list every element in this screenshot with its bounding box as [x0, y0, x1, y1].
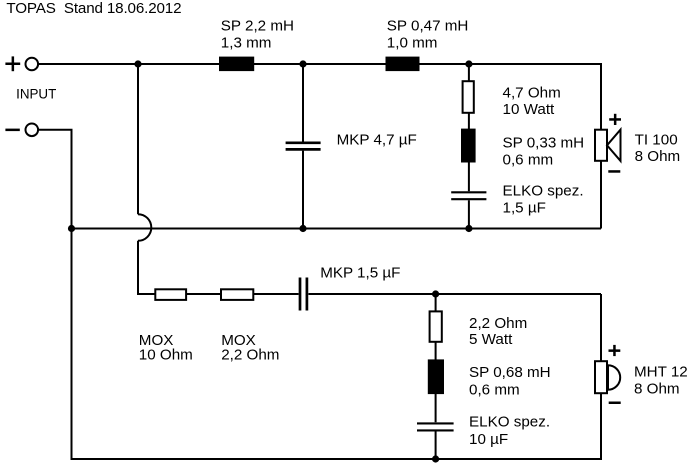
svg-text:1,3 mm: 1,3 mm [221, 35, 272, 52]
svg-text:10 Watt: 10 Watt [503, 101, 556, 118]
svg-text:8 Ohm: 8 Ohm [634, 380, 680, 397]
svg-text:2,2 Ohm: 2,2 Ohm [469, 315, 527, 332]
svg-text:TI 100: TI 100 [635, 132, 678, 149]
svg-text:0,6 mm: 0,6 mm [469, 381, 520, 398]
svg-text:8 Ohm: 8 Ohm [635, 148, 681, 165]
svg-text:1,0 mm: 1,0 mm [387, 35, 438, 52]
svg-text:ELKO spez.: ELKO spez. [503, 182, 584, 199]
svg-text:10 Ohm: 10 Ohm [139, 346, 193, 363]
svg-text:TOPAS Stand 18.06.2012: TOPAS Stand 18.06.2012 [6, 0, 181, 17]
svg-text:10 µF: 10 µF [469, 431, 508, 448]
svg-text:MKP 4,7 µF: MKP 4,7 µF [337, 132, 417, 149]
svg-text:2,2 Ohm: 2,2 Ohm [221, 346, 279, 363]
svg-text:MHT 12: MHT 12 [634, 363, 688, 380]
svg-text:ELKO spez.: ELKO spez. [469, 414, 550, 431]
svg-text:SP 2,2 mH: SP 2,2 mH [221, 17, 294, 34]
svg-text:MKP 1,5 µF: MKP 1,5 µF [320, 264, 400, 281]
svg-text:5 Watt: 5 Watt [469, 331, 513, 348]
svg-text:0,6 mm: 0,6 mm [503, 151, 554, 168]
svg-text:1,5 µF: 1,5 µF [503, 199, 546, 216]
svg-text:SP 0,33 mH: SP 0,33 mH [503, 135, 585, 152]
svg-text:SP 0,47 mH: SP 0,47 mH [387, 17, 469, 34]
svg-text:4,7 Ohm: 4,7 Ohm [503, 85, 561, 102]
svg-text:INPUT: INPUT [16, 86, 56, 101]
svg-text:SP 0,68 mH: SP 0,68 mH [469, 364, 551, 381]
